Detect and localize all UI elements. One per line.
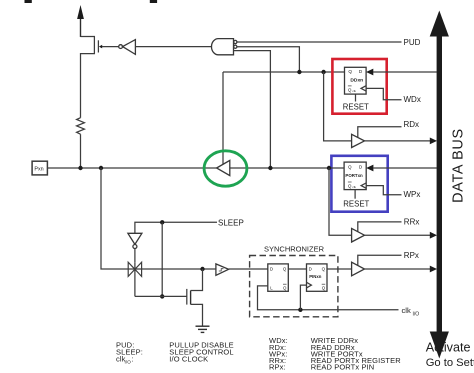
svg-text:Q: Q xyxy=(348,87,352,92)
svg-text:I/O: I/O xyxy=(413,311,420,317)
highlight box blue (PORTxn) xyxy=(331,156,387,212)
ground xyxy=(196,326,210,332)
wire PORTxn Q line xyxy=(230,167,344,169)
highlight circle green xyxy=(204,151,247,186)
wire gate line horizontal xyxy=(135,295,187,297)
legend right column xyxy=(269,336,401,372)
text fragment top-mid xyxy=(150,0,157,3)
wire SLEEP branch down xyxy=(161,222,163,296)
svg-text:WDx: WDx xyxy=(404,95,421,104)
svg-text:RESET: RESET xyxy=(343,199,369,208)
wire WDx clock elbow xyxy=(366,88,401,99)
inverter U9 (sleep) xyxy=(128,233,142,248)
svg-text:SYNCHRONIZER: SYNCHRONIZER xyxy=(264,244,325,253)
wire schmitt to synchronizer xyxy=(229,268,268,270)
watermark xyxy=(426,341,474,369)
node junction clk xyxy=(298,308,302,312)
svg-text:RPx:: RPx: xyxy=(269,363,286,372)
wire pin line xyxy=(47,167,216,169)
wire RPx enable elbow xyxy=(358,255,402,265)
wire clamp vertical through xyxy=(134,262,136,296)
VCC arrow xyxy=(77,5,84,37)
wire PORTxn to RRx buffer xyxy=(329,168,352,235)
svg-text:Q: Q xyxy=(348,183,352,188)
transistor Q1 gate arrow xyxy=(99,45,102,49)
svg-text:DDxn: DDxn xyxy=(350,77,363,83)
wire DDxn to RDx buffer xyxy=(324,72,352,141)
pin D arrowhead (DDxn) xyxy=(366,69,373,76)
wire WPx clock elbow xyxy=(366,186,401,195)
svg-text:RRx: RRx xyxy=(404,218,420,227)
svg-text:RPx: RPx xyxy=(404,251,419,260)
svg-text:PUD: PUD xyxy=(404,38,421,47)
wire RDx buffer to bus xyxy=(365,140,431,142)
svg-text:Activate Win: Activate Win xyxy=(426,341,474,355)
svg-text:Q: Q xyxy=(322,267,326,272)
svg-text:DATA BUS: DATA BUS xyxy=(451,128,467,203)
node junction SLEEP xyxy=(160,220,164,224)
svg-text::: : xyxy=(132,355,134,364)
highlight box red (DDxn) xyxy=(332,59,386,114)
inverter U1 (pull-up driver) xyxy=(119,40,136,55)
flip-flop U5 PORTxn xyxy=(344,162,366,190)
wire inverter to clamp xyxy=(134,249,136,263)
label clk I/O xyxy=(402,306,420,317)
svg-text:Q: Q xyxy=(283,267,287,272)
node junction gate line xyxy=(160,294,164,298)
transistor Q1 (pull-up pMOS) gate bar xyxy=(97,40,99,52)
wire RPx buffer to bus xyxy=(365,268,431,270)
legend left column xyxy=(116,340,234,364)
wire clk to PINxn clock xyxy=(300,285,306,310)
svg-text:READ PORTx PIN: READ PORTx PIN xyxy=(311,363,375,372)
wire inverter to AND gate xyxy=(135,46,213,48)
node junction pin-pullup xyxy=(78,166,82,170)
svg-text:clk: clk xyxy=(352,89,356,93)
wire SLEEP line xyxy=(135,222,217,233)
wire DDxn Q line xyxy=(223,71,345,73)
wire RESET stub (PORTxn) xyxy=(354,190,356,199)
svg-text:Q: Q xyxy=(322,285,326,290)
svg-text:D: D xyxy=(309,267,312,272)
wire pin to input stage xyxy=(101,168,216,269)
wire clk to latch enable xyxy=(258,286,399,310)
wire RESET stub (DDxn) xyxy=(355,94,357,101)
node junction DDxn-AND xyxy=(297,70,301,74)
AND gate input bubble 1 xyxy=(234,40,237,43)
arrowhead into bus (RRx) xyxy=(430,232,437,239)
svg-text:WPx: WPx xyxy=(404,190,421,199)
svg-text:clk: clk xyxy=(402,306,411,315)
svg-text:Pxn: Pxn xyxy=(34,166,43,172)
svg-text:I/O: I/O xyxy=(125,359,132,364)
svg-text:RESET: RESET xyxy=(343,102,369,111)
pin D arrowhead (PORTxn) xyxy=(366,165,373,172)
latch U11 (sync latch) xyxy=(268,264,289,291)
svg-text:Q: Q xyxy=(348,69,352,74)
node junction input-nmos xyxy=(200,267,204,271)
node junction DDxn-RDx xyxy=(321,70,325,74)
AND gate input bubble 2 xyxy=(234,45,237,48)
buffer U7 (RPx tri-state) xyxy=(352,262,365,276)
svg-text:Q: Q xyxy=(283,285,287,290)
svg-text:D: D xyxy=(270,267,273,272)
svg-text:RDx: RDx xyxy=(404,120,420,129)
wire VCC to transistor and down to resistor xyxy=(81,37,95,118)
wire latch to PINxn xyxy=(288,268,306,270)
wire RRx enable elbow xyxy=(358,222,402,232)
node junction PORTxn-RRx xyxy=(327,166,331,170)
wire RRx buffer to bus xyxy=(365,234,431,236)
data bus top arrow xyxy=(430,11,449,37)
clamp switch (bowtie) xyxy=(128,262,141,276)
data bus bar xyxy=(437,35,442,333)
wire DDxn enable to output buffer xyxy=(222,72,224,164)
flip-flop U12 PINxn xyxy=(307,264,328,291)
text fragment top-left xyxy=(25,0,32,3)
svg-text:clk: clk xyxy=(352,185,356,189)
node junction pin-input xyxy=(99,166,103,170)
wire RDx enable elbow xyxy=(358,127,402,138)
AND gate U2 (mirrored, pull-up enable) xyxy=(212,39,234,55)
buffer U8 (output driver) xyxy=(217,160,230,175)
buffer U4 (RDx tri-state) xyxy=(352,134,365,147)
synchronizer dashed box xyxy=(250,256,338,317)
transistor Q2 (nMOS clamp) xyxy=(187,269,203,326)
wire PORTxn D from data bus xyxy=(373,167,437,169)
wire AND input2 from DDxn Q xyxy=(237,47,299,72)
arrowhead into bus (RPx) xyxy=(430,266,437,273)
buffer U6 (RRx tri-state) xyxy=(352,228,365,242)
wire gate to inverter xyxy=(102,46,119,48)
svg-text:Go to Settin: Go to Settin xyxy=(426,357,474,369)
wire PINxn Q to RPx buffer xyxy=(327,268,352,270)
svg-text:PINxn: PINxn xyxy=(309,274,322,279)
flip-flop U3 DDxn xyxy=(345,67,367,94)
wire AND input3 from PORTxn Q xyxy=(234,51,271,168)
data bus bottom arrow xyxy=(430,332,449,359)
arrowhead into bus (RDx) xyxy=(430,138,437,145)
resistor R1 (pull-up) xyxy=(77,118,85,135)
svg-text:I/O CLOCK: I/O CLOCK xyxy=(169,355,208,364)
node junction PORTxn-AND xyxy=(268,166,272,170)
buffer U10 (schmitt trigger) xyxy=(216,264,229,275)
wire PUD input xyxy=(237,41,402,43)
wire resistor to pin line xyxy=(80,134,82,168)
pin box Pxn xyxy=(32,161,47,175)
svg-text:PORTxn: PORTxn xyxy=(345,173,363,178)
svg-text:Q: Q xyxy=(348,164,352,169)
svg-text:SLEEP: SLEEP xyxy=(218,219,244,228)
wire DDxn D from data bus xyxy=(373,71,437,73)
